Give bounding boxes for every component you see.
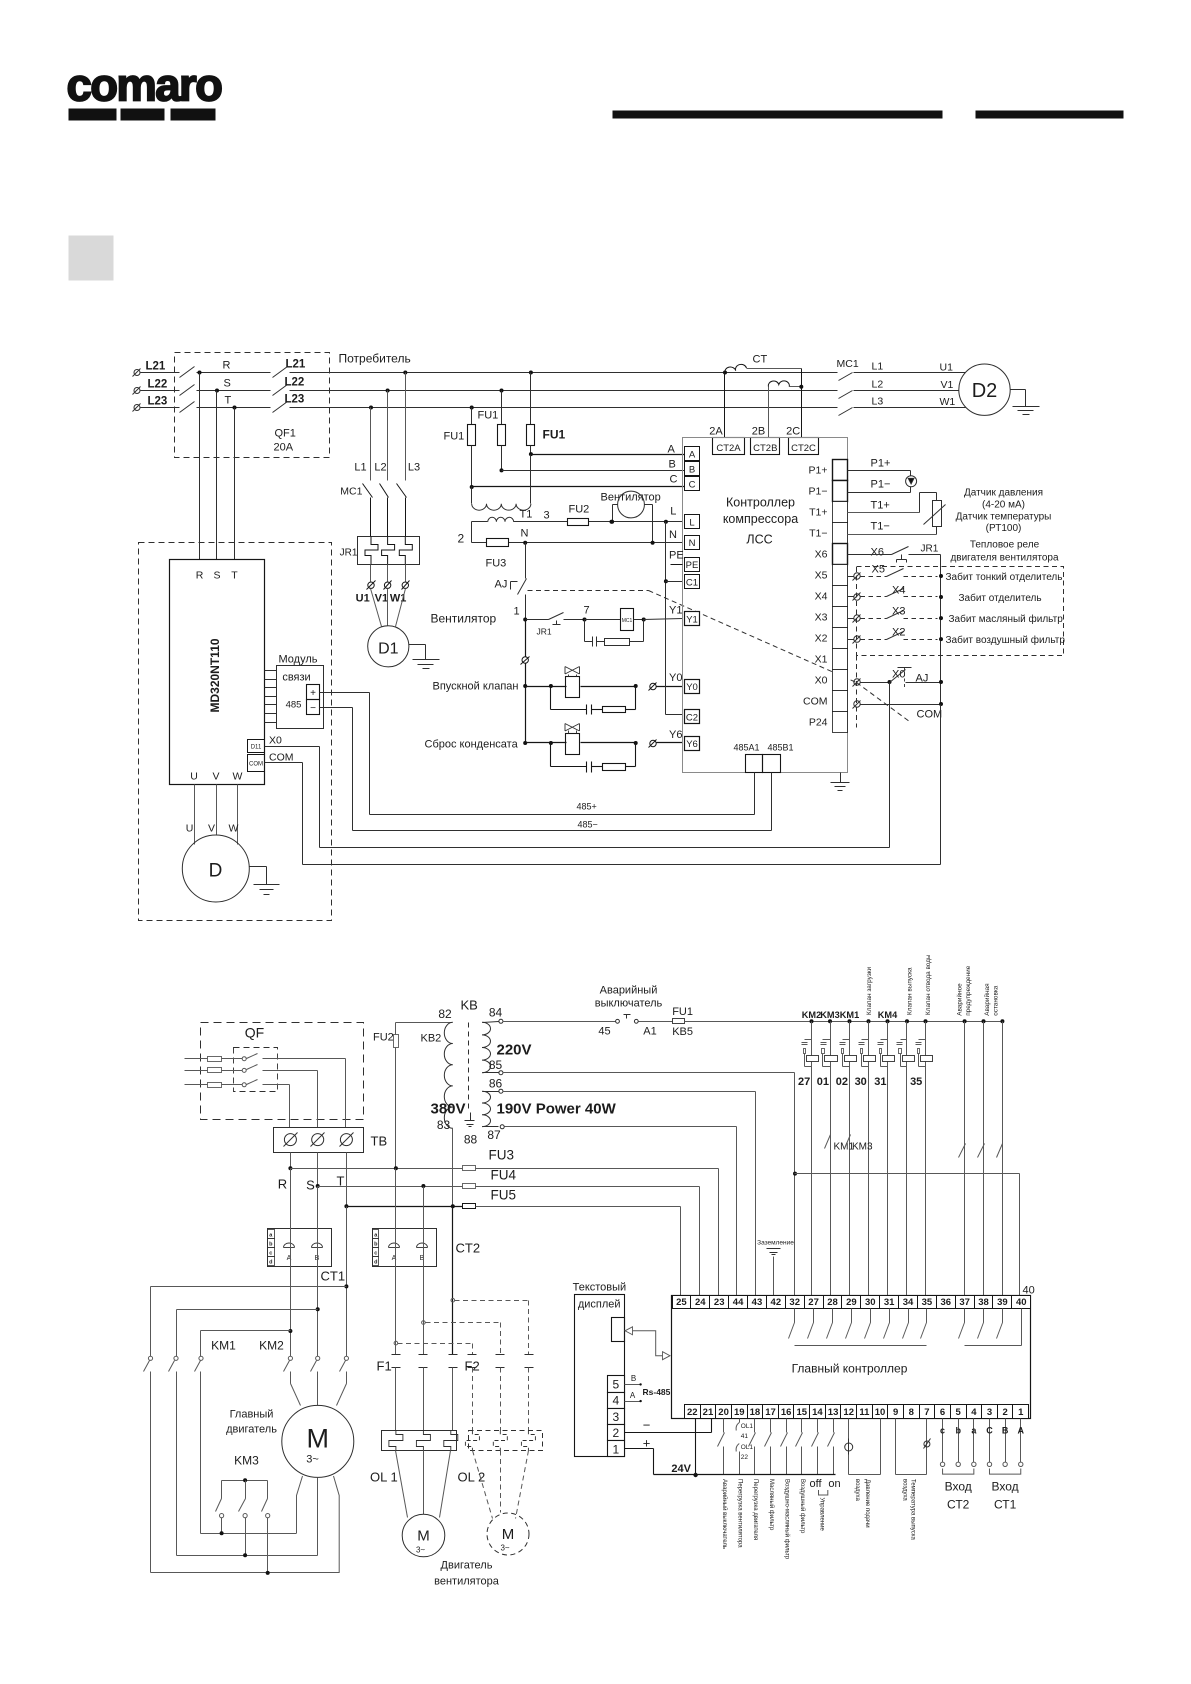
temperature sensor PT100 <box>924 501 946 535</box>
controller ACC box <box>683 438 848 773</box>
branch 35 at x=925 <box>910 1019 932 1295</box>
svg-text:FU1: FU1 <box>444 431 465 443</box>
svg-text:35: 35 <box>910 1076 922 1088</box>
motor bottom leads <box>297 1476 340 1573</box>
svg-text:220V: 220V <box>497 1042 532 1059</box>
top terminal row <box>673 1296 1031 1309</box>
svg-text:P1−: P1− <box>809 486 828 498</box>
svg-text:44: 44 <box>733 1297 744 1308</box>
svg-text:V1: V1 <box>375 593 388 605</box>
svg-text:FU1: FU1 <box>672 1006 693 1018</box>
svg-text:остановка: остановка <box>993 985 1000 1016</box>
svg-text:U1: U1 <box>356 593 370 605</box>
svg-text:R: R <box>196 570 204 582</box>
breaker QF dashed enclosure <box>201 1023 364 1120</box>
svg-text:3: 3 <box>612 1410 619 1424</box>
svg-text:A1: A1 <box>643 1026 656 1038</box>
common sense vertical <box>940 555 942 705</box>
svg-text:MC1: MC1 <box>837 358 859 370</box>
svg-text:B: B <box>689 464 695 475</box>
fuses F2 dashed <box>465 1301 534 1431</box>
branch 27 at x=811 <box>798 1010 821 1296</box>
svg-text:COM: COM <box>269 752 294 764</box>
svg-text:41: 41 <box>741 1433 749 1440</box>
24V common rail <box>654 1419 836 1478</box>
svg-text:Клапан отвода воды: Клапан отвода воды <box>925 954 932 1015</box>
overload relay OL1 <box>370 1430 458 1484</box>
svg-text:36: 36 <box>940 1297 951 1308</box>
svg-text:Вентилятор: Вентилятор <box>431 612 497 626</box>
svg-text:29: 29 <box>846 1297 857 1308</box>
svg-text:Масляный фильтр: Масляный фильтр <box>768 1479 775 1531</box>
svg-text:Аварийная: Аварийная <box>983 983 991 1016</box>
svg-text:d: d <box>374 1259 377 1265</box>
sensor captions <box>956 488 1052 535</box>
svg-text:СТ2: СТ2 <box>947 1498 970 1512</box>
svg-text:P1−: P1− <box>871 479 891 491</box>
wire P1+ <box>848 470 911 472</box>
svg-text:P1+: P1+ <box>809 465 828 477</box>
svg-text:off: off <box>809 1478 822 1490</box>
svg-text:485−: 485− <box>578 820 598 830</box>
svg-text:3~: 3~ <box>416 1546 425 1555</box>
svg-text:86: 86 <box>489 1077 503 1091</box>
overload relay OL2 dashed <box>458 1430 543 1484</box>
svg-text:Потребитель: Потребитель <box>339 352 411 366</box>
svg-text:32: 32 <box>789 1297 800 1308</box>
svg-text:Перегрузка вентилятора: Перегрузка вентилятора <box>737 1479 743 1548</box>
svg-text:(РТ100): (РТ100) <box>986 523 1022 534</box>
svg-text:Y0: Y0 <box>686 682 698 693</box>
svg-text:Забит отделитель: Забит отделитель <box>959 592 1042 604</box>
ground at controller <box>831 773 850 791</box>
svg-text:СТ1: СТ1 <box>994 1498 1017 1512</box>
svg-text:N: N <box>521 528 529 540</box>
wires QF to TB <box>290 1059 346 1128</box>
contactor MC1 output poles <box>837 358 859 416</box>
svg-text:C: C <box>670 474 678 486</box>
svg-text:28: 28 <box>827 1297 838 1308</box>
svg-text:KM1: KM1 <box>211 1339 236 1353</box>
CT2 input terminals 6 5 4 <box>940 1419 977 1512</box>
svg-text:485+: 485+ <box>577 802 597 812</box>
svg-text:связи: связи <box>282 672 310 684</box>
svg-text:CT2A: CT2A <box>716 443 741 454</box>
svg-text:C: C <box>986 1426 993 1436</box>
branch 31 at x=887 <box>874 1010 898 1296</box>
svg-text:17: 17 <box>765 1407 776 1418</box>
wire 86 to terminal 43 <box>503 1092 756 1296</box>
svg-text:V: V <box>212 771 219 783</box>
svg-text:c: c <box>374 1250 377 1256</box>
wire T1- <box>848 534 937 536</box>
branch 02 at x=849 <box>836 1010 859 1296</box>
terminal A <box>685 447 700 461</box>
svg-text:01: 01 <box>817 1076 829 1088</box>
svg-text:QF1: QF1 <box>275 428 296 440</box>
svg-text:23: 23 <box>714 1297 725 1308</box>
svg-text:2B: 2B <box>752 426 765 438</box>
svg-text:предупреждение: предупреждение <box>965 965 972 1016</box>
svg-text:M: M <box>502 1526 515 1543</box>
svg-text:(4-20 мА): (4-20 мА) <box>982 500 1025 511</box>
svg-text:L21: L21 <box>146 361 166 373</box>
phase bus L21 <box>290 372 838 374</box>
svg-text:13: 13 <box>828 1407 839 1418</box>
svg-text:Забит воздушный фильтр: Забит воздушный фильтр <box>946 634 1066 646</box>
fan control branch: JR1 aux contact <box>526 605 590 637</box>
svg-text:24: 24 <box>695 1297 706 1308</box>
svg-text:Модуль: Модуль <box>279 654 318 666</box>
svg-text:C1: C1 <box>686 577 698 588</box>
svg-text:FU4: FU4 <box>491 1168 517 1183</box>
rotated valve labels <box>866 954 1000 1016</box>
svg-text:ЛСС: ЛСС <box>746 533 772 547</box>
svg-text:Аварийное: Аварийное <box>956 983 964 1016</box>
svg-text:Rs-485: Rs-485 <box>643 1387 671 1397</box>
svg-text:21: 21 <box>703 1407 714 1418</box>
pressure sensor 4-20mA <box>906 476 917 493</box>
svg-text:X0: X0 <box>815 675 828 687</box>
fuse FU1 / KB5 <box>639 1006 693 1038</box>
svg-text:V1: V1 <box>941 379 954 391</box>
svg-text:Главный контроллер: Главный контроллер <box>792 1362 908 1376</box>
svg-text:T1: T1 <box>520 509 533 521</box>
svg-text:KM3: KM3 <box>852 1142 873 1153</box>
alarm branch x=983 <box>978 1019 986 1295</box>
ground at D1 <box>409 645 440 669</box>
svg-text:Аварийный: Аварийный <box>600 985 658 997</box>
temperature sensor loop terminals 9-7 <box>896 1419 931 1475</box>
svg-text:+: + <box>310 688 316 699</box>
svg-text:PE: PE <box>686 560 699 571</box>
svg-text:L3: L3 <box>408 462 420 474</box>
svg-text:1: 1 <box>612 1442 619 1456</box>
svg-text:T: T <box>225 395 232 407</box>
svg-text:82: 82 <box>438 1007 452 1021</box>
svg-text:L2: L2 <box>374 462 386 474</box>
svg-text:KM2: KM2 <box>802 1010 821 1020</box>
svg-text:B: B <box>669 459 676 471</box>
svg-text:AJ: AJ <box>916 673 929 685</box>
svg-text:8: 8 <box>909 1407 914 1418</box>
svg-text:30: 30 <box>865 1297 876 1308</box>
svg-text:45: 45 <box>598 1026 610 1038</box>
svg-text:20: 20 <box>718 1407 729 1418</box>
vertical to inlet/drain valves <box>521 620 530 743</box>
display comm arrows <box>625 1327 670 1360</box>
svg-text:JR1: JR1 <box>340 548 358 559</box>
svg-text:PE: PE <box>669 550 684 562</box>
wire X0 return <box>265 683 890 848</box>
svg-text:Y1: Y1 <box>669 605 682 617</box>
svg-text:88: 88 <box>464 1133 478 1147</box>
svg-text:485: 485 <box>286 700 302 711</box>
svg-text:X3: X3 <box>815 612 828 624</box>
fuse group FU1 <box>444 371 566 446</box>
svg-text:c: c <box>269 1250 272 1256</box>
terminal C <box>685 477 700 491</box>
top rule bars <box>613 111 1124 119</box>
svg-text:Y6: Y6 <box>686 739 698 750</box>
input X0 with AJ button <box>853 668 944 690</box>
svg-text:L23: L23 <box>285 394 305 406</box>
svg-text:OL1: OL1 <box>741 1423 754 1430</box>
svg-text:KB2: KB2 <box>421 1033 442 1045</box>
branch valve at x=906.5 <box>897 1019 915 1295</box>
QF poles <box>185 1054 346 1088</box>
svg-text:Давление подачи: Давление подачи <box>864 1479 870 1528</box>
svg-text:CT2C: CT2C <box>791 443 816 454</box>
pressure sensor loop terminals 12-10 <box>845 1419 881 1475</box>
svg-text:31: 31 <box>874 1076 886 1088</box>
contactor KM1 <box>144 1339 237 1573</box>
drain valve Y6 row <box>523 724 682 755</box>
svg-text:L23: L23 <box>148 396 168 408</box>
fan motor 2 dashed <box>473 1451 530 1556</box>
sense input X4 <box>848 585 1042 605</box>
svg-text:4: 4 <box>971 1407 977 1418</box>
terminal block TB <box>274 1128 388 1153</box>
terminal Y6 <box>685 737 700 751</box>
fuses F1 <box>377 1355 458 1431</box>
svg-text:L21: L21 <box>286 359 306 371</box>
svg-text:U1: U1 <box>940 362 954 374</box>
svg-text:AJ: AJ <box>495 579 508 591</box>
fuse FU3 <box>487 539 509 547</box>
aux contacts KM1 KM3 <box>825 1135 874 1153</box>
svg-text:380V: 380V <box>431 1101 466 1118</box>
common C1/C2 vertical <box>610 520 683 715</box>
svg-text:R: R <box>223 360 231 372</box>
wire 485+ <box>320 693 755 815</box>
svg-text:X5: X5 <box>815 570 828 582</box>
svg-text:02: 02 <box>836 1076 848 1088</box>
fan Вентилятор (220V) <box>601 491 661 545</box>
OL1 input terminal 19 <box>736 1419 753 1475</box>
svg-text:A: A <box>1018 1426 1025 1436</box>
svg-text:Контроллер: Контроллер <box>726 496 795 510</box>
svg-text:X6: X6 <box>871 547 884 559</box>
svg-text:N: N <box>669 529 677 541</box>
svg-text:Датчик давления: Датчик давления <box>964 488 1043 499</box>
motor D2 <box>959 364 1010 415</box>
svg-text:COM: COM <box>917 709 943 721</box>
fuse FU2 <box>568 519 589 526</box>
sense input X5 <box>848 564 1063 584</box>
svg-text:L1: L1 <box>872 361 884 373</box>
svg-text:KM4: KM4 <box>878 1010 898 1020</box>
emergency stop switch 45/A1 <box>503 985 663 1038</box>
KB secondary 220V <box>482 1006 532 1075</box>
internal relay contacts (right bank) <box>959 1309 1022 1346</box>
svg-text:P1+: P1+ <box>871 458 891 470</box>
svg-text:KM2: KM2 <box>259 1339 284 1353</box>
svg-text:Заземление: Заземление <box>757 1240 794 1247</box>
svg-text:+: + <box>643 1436 651 1451</box>
svg-text:L: L <box>689 518 694 529</box>
svg-text:190V Power 40W: 190V Power 40W <box>497 1101 617 1118</box>
svg-text:34: 34 <box>903 1297 914 1308</box>
svg-text:38: 38 <box>978 1297 989 1308</box>
svg-text:Тепловое реле: Тепловое реле <box>970 540 1040 551</box>
svg-text:2: 2 <box>1002 1407 1007 1418</box>
terminal Y0 <box>685 680 700 694</box>
svg-text:X1: X1 <box>815 654 828 666</box>
transformer T1 <box>472 455 550 522</box>
phase bus L22 <box>290 390 838 392</box>
input supply terminals L21 L22 L23 <box>133 361 180 412</box>
svg-text:двигателя вентилятора: двигателя вентилятора <box>950 553 1059 564</box>
svg-text:85: 85 <box>489 1058 503 1072</box>
svg-text:TB: TB <box>371 1134 388 1149</box>
R line with fuse FU3 to terminal 23 <box>288 1148 718 1296</box>
svg-text:Вход: Вход <box>945 1480 972 1494</box>
wire C to controller <box>471 446 473 487</box>
svg-text:OL 2: OL 2 <box>458 1470 486 1485</box>
svg-text:MC1: MC1 <box>340 486 362 498</box>
terminals 485A1 485B1 <box>733 743 793 773</box>
svg-text:2: 2 <box>612 1426 619 1440</box>
terminal N <box>685 536 700 550</box>
motor terminals U1 V1 W1 <box>356 565 410 627</box>
breaker QF1 dashed box <box>175 353 330 458</box>
terminal B <box>685 462 700 476</box>
wire T1+ <box>848 512 920 514</box>
svg-text:Впускной клапан: Впускной клапан <box>433 681 519 693</box>
taps L1 L2 L3 <box>354 371 420 481</box>
current transformer CT1 <box>268 1229 346 1284</box>
svg-text:CT2: CT2 <box>456 1241 481 1256</box>
emergency contact AJ <box>495 541 528 620</box>
svg-text:FU1: FU1 <box>478 410 499 422</box>
switch inputs terminals 20..13 <box>718 1419 835 1475</box>
KB secondary 190V <box>482 1077 617 1143</box>
ground at motor D <box>250 867 280 895</box>
svg-text:FU5: FU5 <box>491 1188 517 1203</box>
svg-text:L22: L22 <box>285 377 305 389</box>
svg-text:N: N <box>689 538 696 549</box>
svg-text:Y6: Y6 <box>669 729 682 741</box>
off on labels <box>809 1478 840 1495</box>
svg-text:−: − <box>310 703 316 714</box>
terminal PE <box>685 558 700 572</box>
svg-text:Воздушный фильтр: Воздушный фильтр <box>799 1479 806 1534</box>
svg-text:T1+: T1+ <box>809 507 827 519</box>
svg-text:выключатель: выключатель <box>595 998 663 1010</box>
current transformer CT <box>723 354 803 438</box>
svg-text:S: S <box>224 378 231 390</box>
svg-text:L22: L22 <box>148 379 168 391</box>
svg-text:C2: C2 <box>686 712 698 723</box>
terminal C1 <box>685 575 700 589</box>
svg-text:Воздушно-масляный фильтр: Воздушно-масляный фильтр <box>783 1479 790 1560</box>
svg-text:D: D <box>209 861 223 882</box>
CT secondary terminals 2A 2B 2C <box>709 426 818 455</box>
RC snubber inlet valve <box>551 687 636 715</box>
svg-text:S: S <box>306 1178 315 1193</box>
svg-text:FU1: FU1 <box>543 428 566 442</box>
svg-text:comaro: comaro <box>67 60 223 111</box>
svg-text:D2: D2 <box>972 380 998 402</box>
ground Заземление before terminal 42 <box>757 1240 794 1296</box>
svg-text:T1−: T1− <box>871 521 890 533</box>
RS-485 wires B A <box>625 1374 671 1402</box>
svg-text:42: 42 <box>771 1297 782 1308</box>
svg-text:X0: X0 <box>269 735 282 747</box>
internal relay contacts (left bank) <box>789 1309 927 1346</box>
svg-text:Перегрузка двигателя: Перегрузка двигателя <box>752 1479 758 1540</box>
mechanical link dashed from AJ <box>528 590 649 592</box>
svg-text:B: B <box>631 1374 636 1383</box>
svg-text:X5: X5 <box>872 564 885 576</box>
svg-text:−: − <box>643 1418 651 1433</box>
terminal D11 <box>248 740 265 753</box>
comaro logo <box>67 60 223 121</box>
svg-text:Y1: Y1 <box>686 615 698 626</box>
svg-text:25: 25 <box>676 1297 687 1308</box>
svg-text:40: 40 <box>1016 1297 1027 1308</box>
svg-text:CT: CT <box>753 354 768 366</box>
wire 83 down to T line <box>452 1129 454 1207</box>
svg-text:3: 3 <box>987 1407 992 1418</box>
QF1 switch poles bank2 <box>273 359 306 454</box>
svg-text:KM3: KM3 <box>234 1454 259 1468</box>
svg-text:40: 40 <box>1023 1285 1035 1297</box>
contactor coil MC1 <box>585 609 683 631</box>
svg-text:83: 83 <box>437 1118 451 1132</box>
svg-text:Двигатель: Двигатель <box>441 1560 493 1572</box>
dashed sensor box <box>857 567 1064 656</box>
text display box <box>573 1282 627 1457</box>
wire 3 / L row <box>472 521 488 523</box>
svg-text:W: W <box>233 771 243 783</box>
svg-text:JR1: JR1 <box>921 544 939 555</box>
svg-text:MD320NT110: MD320NT110 <box>208 638 222 712</box>
svg-text:Датчик температуры: Датчик температуры <box>956 512 1052 523</box>
svg-text:JR1: JR1 <box>537 627 552 637</box>
svg-text:Главный: Главный <box>230 1409 274 1421</box>
svg-text:FU3: FU3 <box>486 558 507 570</box>
wires to motor D2 <box>854 361 966 409</box>
motor D leads U V W <box>186 785 239 845</box>
wire 2 / N row <box>458 522 683 546</box>
svg-text:2C: 2C <box>786 426 800 438</box>
svg-text:d: d <box>269 1259 272 1265</box>
svg-text:OL1: OL1 <box>741 1444 754 1451</box>
star-delta links <box>151 1531 340 1575</box>
main motor M <box>282 1405 354 1477</box>
wire 85 to terminal 32 <box>503 1073 795 1296</box>
svg-text:9: 9 <box>893 1407 898 1418</box>
svg-text:87: 87 <box>487 1128 501 1142</box>
wire 485- <box>320 708 772 831</box>
svg-text:Забит масляный фильтр: Забит масляный фильтр <box>949 613 1064 625</box>
svg-text:39: 39 <box>997 1297 1008 1308</box>
svg-text:X2: X2 <box>815 633 828 645</box>
svg-text:on: on <box>828 1478 840 1490</box>
svg-text:дисплей: дисплей <box>578 1299 621 1311</box>
plus wire terminal 22 <box>625 1436 654 1475</box>
fuse FU2 (KB primary) <box>373 1023 453 1169</box>
svg-text:KB: KB <box>461 998 478 1013</box>
svg-text:M: M <box>417 1528 430 1545</box>
wire P1- <box>848 492 911 494</box>
svg-text:Вентилятор: Вентилятор <box>601 492 661 504</box>
svg-text:B: B <box>1002 1426 1009 1436</box>
coil return rail to 40 <box>793 1172 1035 1297</box>
main controller box <box>672 1296 1031 1419</box>
